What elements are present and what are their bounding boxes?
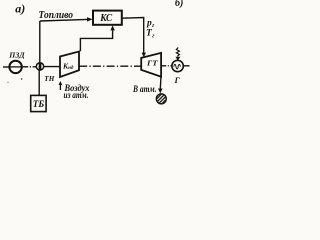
svg-text:рг: рг [146,18,155,29]
svg-text:В атм.: В атм. [132,85,156,95]
svg-text:ПЗД: ПЗД [8,50,25,59]
svg-text:ТБ: ТБ [33,99,45,109]
svg-text:КС: КС [99,13,112,24]
svg-text:Г: Г [174,75,181,85]
svg-text:из атм.: из атм. [64,90,89,100]
svg-text:а): а) [15,1,25,15]
svg-text:б): б) [175,0,183,9]
svg-text:ГТ: ГТ [146,58,158,67]
svg-text:Кнд: Кнд [62,61,74,71]
svg-text:Тг: Тг [146,29,155,40]
svg-text:ТН: ТН [44,74,55,83]
svg-text:Топливо: Топливо [39,9,74,21]
